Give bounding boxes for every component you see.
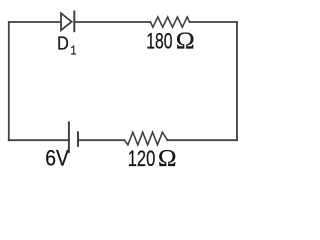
wire right vertical bbox=[236, 22, 238, 140]
wire left vertical bbox=[8, 22, 10, 140]
diode D1 cathode bar bbox=[73, 12, 75, 32]
wire top-middle segment bbox=[74, 21, 150, 23]
svg-text:6V: 6V bbox=[45, 146, 69, 171]
resistor 180ohm zigzag bbox=[150, 17, 189, 27]
battery short plate bbox=[77, 132, 79, 146]
diode D1 triangle bbox=[61, 13, 72, 30]
svg-text:1: 1 bbox=[71, 44, 77, 60]
svg-text:D: D bbox=[57, 32, 69, 53]
wire top-left segment bbox=[9, 21, 61, 23]
wire bottom-middle segment bbox=[78, 139, 124, 141]
wire bottom-left segment bbox=[9, 139, 69, 141]
svg-text:180: 180 bbox=[146, 29, 172, 54]
wire top-right segment bbox=[190, 21, 237, 23]
svg-text:120: 120 bbox=[128, 146, 156, 171]
wire bottom-right segment bbox=[167, 139, 237, 141]
svg-text:Ω: Ω bbox=[176, 29, 195, 55]
svg-text:Ω: Ω bbox=[158, 146, 177, 172]
resistor 120ohm zigzag bbox=[124, 132, 167, 145]
battery long plate bbox=[68, 122, 70, 152]
